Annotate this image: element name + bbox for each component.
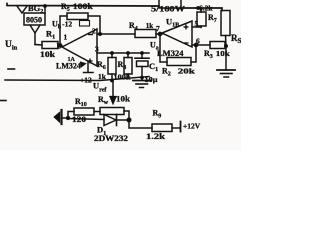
svg-text:Ua: Ua [150, 41, 159, 52]
svg-text:10k: 10k [116, 95, 131, 104]
svg-text:1k: 1k [98, 72, 107, 81]
svg-text:RS: RS [231, 33, 241, 45]
resistor R5 [67, 13, 88, 20]
wire top rail right segment [181, 8, 222, 11]
wire Rs bottom to ground [225, 46, 227, 70]
resistor R4 [135, 30, 156, 38]
svg-text:7: 7 [156, 24, 160, 33]
wire pin3 [97, 52, 149, 54]
resistor R3 [196, 42, 227, 49]
svg-text:+12V: +12V [183, 122, 201, 131]
wire to diode D1 [68, 119, 104, 120]
ground right [217, 70, 235, 77]
svg-text:2DW232: 2DW232 [94, 134, 128, 143]
small box near -12 [80, 21, 90, 27]
node Ub vertical wire [60, 16, 67, 46]
diode D1 [104, 115, 129, 126]
wire R9 to +12V terminal [172, 122, 181, 132]
svg-text:100k: 100k [114, 73, 132, 82]
svg-text:R6: R6 [97, 60, 106, 71]
wire long bottom reference line [5, 77, 149, 81]
wire pin2 [97, 33, 135, 35]
svg-text:R220k: R220k [162, 67, 196, 78]
svg-text:Rw: Rw [98, 95, 109, 106]
op-amp U1A [62, 29, 97, 66]
wire RW to node [124, 111, 129, 120]
wire R2 to pin6 [191, 45, 196, 62]
svg-text:U: U [57, 42, 63, 51]
node Uref wiper wire [112, 81, 114, 99]
wire R5 right to pin2 [88, 16, 100, 34]
input terminal [60, 110, 62, 124]
ground middle [133, 78, 151, 88]
op-amp U1B [162, 21, 192, 47]
resistor R9 [152, 124, 172, 132]
node Ua wire and R2 loop [160, 34, 167, 62]
svg-text:Uref: Uref [93, 81, 107, 94]
svg-text:10µ: 10µ [145, 75, 159, 84]
resistor R2 [167, 58, 191, 66]
svg-text:R7: R7 [208, 13, 217, 24]
svg-text:R10: R10 [75, 97, 87, 108]
svg-text:5/160W: 5/160W [151, 4, 186, 14]
wire terminal junction [62, 112, 74, 119]
svg-text:R5100k: R5100k [61, 2, 93, 13]
Uref wiper arrowhead [109, 96, 117, 105]
svg-text:2: 2 [92, 27, 96, 36]
svg-text:R8: R8 [118, 60, 127, 71]
load resistor 5/160W [159, 0, 181, 8]
svg-text:5: 5 [195, 19, 199, 28]
svg-text:120: 120 [72, 115, 86, 124]
transistor BG2 [17, 6, 45, 45]
wire emitter to R1 [35, 44, 42, 47]
op-amp U1A supply pin [84, 62, 94, 73]
resistor R6 [108, 53, 116, 81]
U1A supply arrow [80, 62, 87, 68]
wire node to R9 [129, 120, 152, 128]
svg-text:LM324: LM324 [56, 62, 81, 71]
svg-text:Uin: Uin [5, 40, 18, 52]
wire R1 to node Ub [58, 45, 62, 47]
wire R4 to U1B [156, 33, 162, 35]
resistor R7 [197, 8, 206, 28]
wire top rail left segment [7, 4, 159, 7]
svg-text:6: 6 [196, 37, 200, 46]
svg-text:R41k: R41k [129, 21, 153, 32]
svg-text:1.2k: 1.2k [146, 132, 166, 141]
svg-text:C1: C1 [149, 61, 158, 73]
junction node dots [43, 4, 47, 8]
svg-text:+12: +12 [80, 76, 92, 85]
svg-text:U1B: U1B [166, 17, 179, 29]
svg-text:8050: 8050 [26, 16, 42, 25]
wire pin5 [192, 26, 201, 28]
svg-text:R9: R9 [153, 109, 162, 120]
wire pin6 [192, 44, 196, 46]
svg-text:10k: 10k [40, 50, 56, 59]
stray mark left edge [0, 100, 6, 102]
svg-text:3: 3 [95, 45, 99, 54]
svg-text:6.2k: 6.2k [199, 4, 213, 13]
op-amp U1B polarity signs [184, 25, 189, 44]
capacitor C1 [135, 53, 149, 78]
svg-text:R1: R1 [46, 29, 55, 41]
resistor Rs [221, 11, 230, 47]
wire R10 to RW [94, 111, 100, 113]
svg-text:Ub-12: Ub-12 [52, 20, 72, 31]
potentiometer RW [100, 108, 124, 115]
op-amp U1A polarity signs [88, 35, 94, 64]
resistor R8 [124, 53, 132, 78]
svg-text:LM324: LM324 [157, 48, 184, 58]
input terminal arrow [54, 112, 61, 124]
svg-text:R310k: R310k [204, 49, 231, 60]
resistor R10 [74, 108, 94, 115]
resistor R1 [42, 42, 58, 49]
svg-text:1: 1 [64, 33, 68, 42]
input minus dash [8, 68, 15, 70]
